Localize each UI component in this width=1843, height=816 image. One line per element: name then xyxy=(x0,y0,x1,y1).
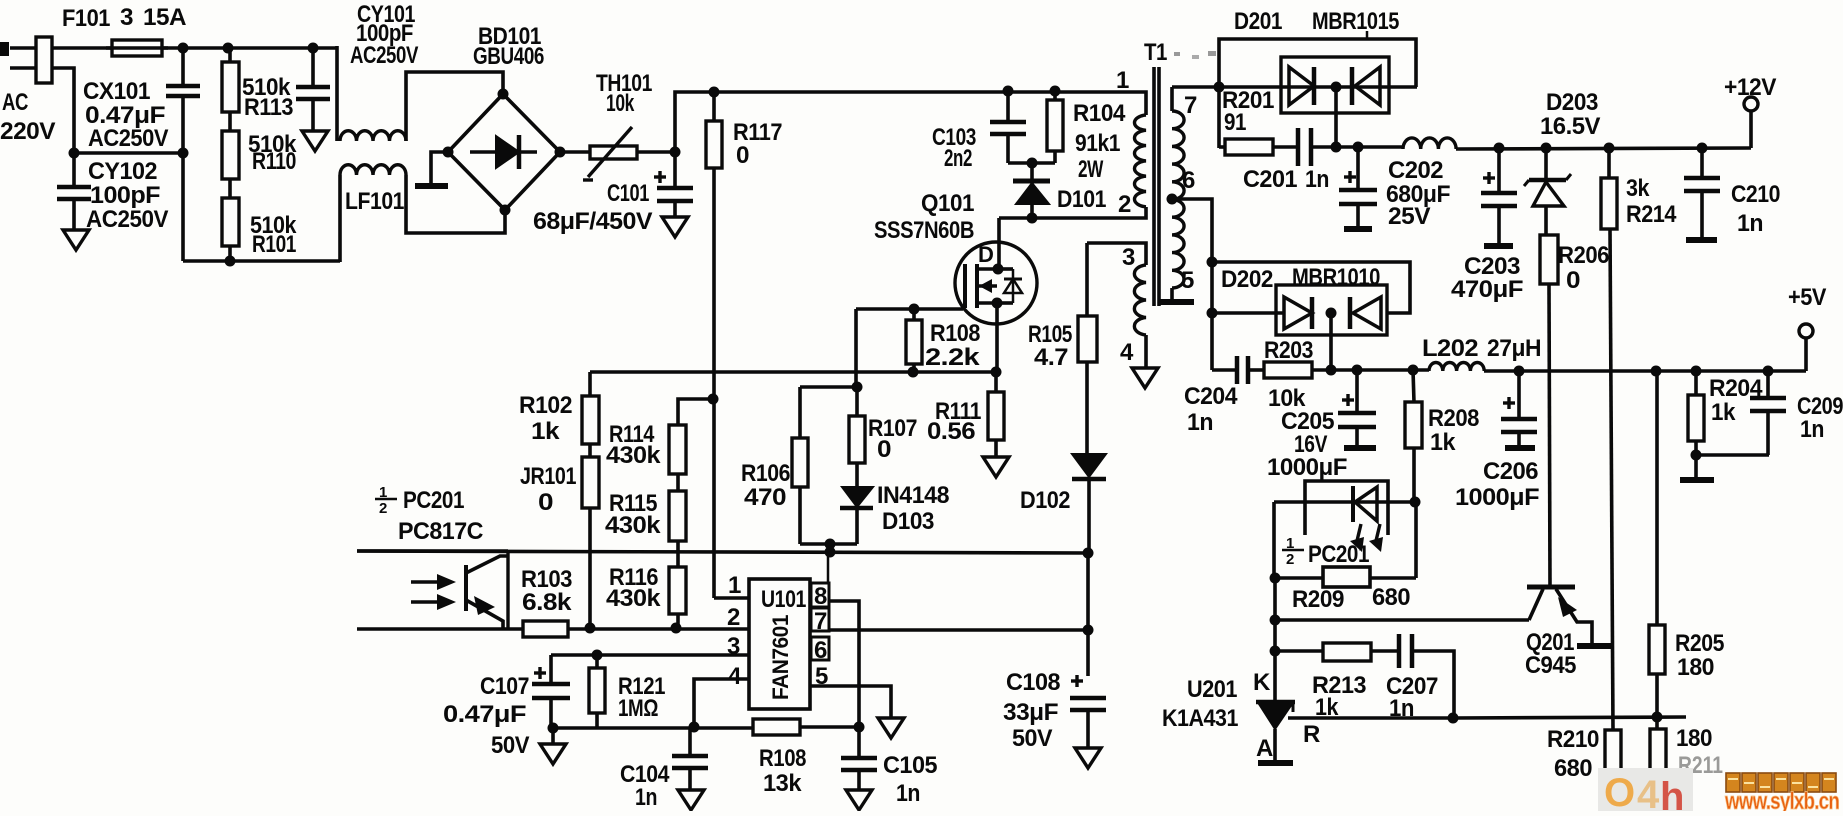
svg-text:1: 1 xyxy=(1116,67,1129,94)
svg-text:1k: 1k xyxy=(1430,429,1456,456)
capacitor CY102 xyxy=(72,153,76,185)
resistor R102 xyxy=(588,372,592,396)
transformer core line right xyxy=(1157,67,1161,306)
svg-text:U201: U201 xyxy=(1187,676,1237,703)
node D201 common cathode xyxy=(1331,82,1342,93)
wire R101 to bottom rail xyxy=(228,246,232,261)
svg-text:MBR1015: MBR1015 xyxy=(1312,8,1399,35)
svg-text:AC250V: AC250V xyxy=(86,206,168,233)
scan smudge near T1 xyxy=(1174,52,1180,56)
svg-text:C206: C206 xyxy=(1483,458,1538,485)
capacitor CX101 xyxy=(181,48,185,84)
node clamp D101 xyxy=(1027,158,1038,169)
wire live rail drop to LF101 xyxy=(335,46,339,141)
node D202 common cathode xyxy=(1326,308,1337,319)
wire L202 to +5V rail xyxy=(1484,369,1806,373)
svg-text:430k: 430k xyxy=(606,442,661,469)
wire R114 top link xyxy=(678,399,713,425)
ground C206 bar xyxy=(1505,445,1535,451)
wire plug prong live xyxy=(10,46,36,50)
resistor R213 xyxy=(1323,643,1371,661)
node secondary center tap pin6 xyxy=(1167,194,1178,205)
svg-text:T1: T1 xyxy=(1144,39,1167,66)
svg-text:33μF: 33μF xyxy=(1003,699,1058,726)
resistor JR101 xyxy=(582,457,599,508)
svg-text:4: 4 xyxy=(1120,339,1134,366)
svg-text:25V: 25V xyxy=(1388,203,1431,230)
node LED R208 junction xyxy=(1410,497,1421,508)
resistor R214 xyxy=(1607,148,1611,178)
svg-text:D: D xyxy=(978,242,993,267)
node gate R108 xyxy=(909,304,920,315)
diode D102 xyxy=(1072,454,1106,477)
resistor R206 xyxy=(1540,235,1558,284)
svg-text:2W: 2W xyxy=(1078,156,1104,183)
ground R211 bar xyxy=(1640,799,1676,805)
node snubber cathode junction xyxy=(1331,142,1342,153)
svg-text:R108: R108 xyxy=(759,745,806,772)
ground C101 xyxy=(662,217,688,237)
svg-text:R: R xyxy=(1303,721,1320,748)
svg-text:2: 2 xyxy=(727,604,740,631)
ground aux winding xyxy=(1132,368,1158,388)
svg-text:K: K xyxy=(1253,669,1271,696)
diode pack D201 inner box xyxy=(1281,57,1389,113)
optocoupler PC817C collector diagonal xyxy=(466,556,507,573)
transistor Q101 channel bar xyxy=(975,264,979,308)
node rail C203 xyxy=(1494,143,1505,154)
svg-text:1: 1 xyxy=(1286,535,1294,552)
diode D201 right half xyxy=(1355,67,1380,105)
svg-text:680: 680 xyxy=(1554,755,1592,782)
diode D202 right half xyxy=(1353,297,1381,329)
svg-text:R113: R113 xyxy=(244,94,293,121)
node timing node C105 xyxy=(854,722,865,733)
scan artifact top-left edge xyxy=(0,42,9,56)
node R213 junction xyxy=(1270,646,1281,657)
capacitor C107 xyxy=(549,655,553,682)
node R116 bottom xyxy=(671,623,682,634)
svg-text:1MΩ: 1MΩ xyxy=(618,695,658,722)
wire R213 to C207 xyxy=(1371,649,1399,653)
svg-text:0.56: 0.56 xyxy=(927,418,975,445)
wire plug prong neutral xyxy=(10,66,36,70)
svg-text:1000μF: 1000μF xyxy=(1267,454,1347,481)
wire timing rail xyxy=(553,726,753,730)
resistor R107 xyxy=(855,387,859,416)
svg-text:D103: D103 xyxy=(882,508,934,535)
resistor R104 xyxy=(1053,91,1057,100)
svg-text:R214: R214 xyxy=(1626,201,1677,228)
node bridge left vertex xyxy=(443,147,454,158)
transistor Q101 body diode xyxy=(998,267,1013,271)
diode D103 xyxy=(842,487,873,507)
svg-text:R110: R110 xyxy=(252,148,296,175)
svg-text:PC817C: PC817C xyxy=(398,518,483,545)
diode pack D202 outer loop xyxy=(1212,262,1410,313)
transformer core line left xyxy=(1152,67,1156,306)
svg-text:D203: D203 xyxy=(1546,89,1598,116)
transistor Q101 source stub xyxy=(977,301,997,305)
resistor R105 xyxy=(1085,243,1089,316)
svg-text:h: h xyxy=(1660,775,1684,811)
wire vcc feedback rail xyxy=(357,551,1089,553)
wire LF101 bottom out xyxy=(406,175,505,233)
wire bridge to TH101 xyxy=(560,150,590,154)
ic U101 pin7 box xyxy=(811,608,829,631)
node gate network tap xyxy=(825,539,836,550)
svg-text:1: 1 xyxy=(379,484,387,501)
node rail C202 xyxy=(1353,142,1364,153)
capacitor CY101 xyxy=(311,48,315,85)
shunt regulator U201 K1A431 xyxy=(1256,700,1295,705)
wire plug neutral to CX bottom xyxy=(52,68,74,153)
inductor LF101 bottom winding xyxy=(340,165,406,175)
wire pin7 to D201 xyxy=(1172,85,1417,89)
resistor R211 xyxy=(1655,717,1659,729)
wire R214 down xyxy=(1610,229,1613,730)
wire ref rail right xyxy=(1453,717,1686,718)
resistor R117 xyxy=(712,92,716,121)
diode pack D202 inner box xyxy=(1276,285,1387,335)
resistor R121 xyxy=(595,655,599,668)
wire TH101 to C101 node xyxy=(637,150,675,154)
optocoupler PC201 LED box xyxy=(1305,481,1388,535)
svg-text:15A: 15A xyxy=(143,4,186,31)
wire U101 pin7 rail xyxy=(829,628,1088,632)
wire LF101 bottom left xyxy=(338,175,342,262)
terminal +12V xyxy=(1744,97,1758,111)
svg-text:C202: C202 xyxy=(1388,157,1443,184)
node HV rail C103 xyxy=(1003,86,1014,97)
watermark chinese text blocks xyxy=(1726,773,1740,792)
node D202 anode tie xyxy=(1207,308,1218,319)
transistor Q201 base diagonal xyxy=(1529,589,1543,620)
wire C201 to rail xyxy=(1311,145,1403,149)
ground U201 bar xyxy=(1258,760,1293,766)
capacitor C105 xyxy=(857,727,861,756)
wire D202 cathode down xyxy=(1329,313,1333,370)
svg-text:CY102: CY102 xyxy=(88,158,157,185)
svg-text:A: A xyxy=(1256,735,1273,762)
resistor R209 xyxy=(1323,567,1370,587)
svg-text:F101: F101 xyxy=(62,5,110,32)
zener D203 xyxy=(1544,148,1548,179)
node 5V rail C206 xyxy=(1514,366,1525,377)
svg-text:AC250V: AC250V xyxy=(350,42,418,69)
ground bridge negative bar xyxy=(415,183,448,189)
wire D202 anode wire xyxy=(1212,311,1284,315)
resistor R205 xyxy=(1655,371,1659,625)
ground CY102 xyxy=(63,230,89,250)
svg-text:220V: 220V xyxy=(0,118,55,145)
svg-text:0: 0 xyxy=(877,436,891,463)
svg-text:3: 3 xyxy=(1122,244,1135,271)
resistor R108 2.2k xyxy=(912,309,916,320)
svg-text:U101: U101 xyxy=(761,586,806,613)
wire LF101 top out xyxy=(406,72,503,141)
AC plug P101 xyxy=(36,37,52,83)
wire vcc drop to pin7 rail xyxy=(1086,553,1090,630)
capacitor C104 xyxy=(688,727,692,754)
capacitor C206 electrolytic xyxy=(1517,371,1521,417)
node neutral junction xyxy=(69,148,80,159)
wire neutral bottom rail xyxy=(181,151,185,261)
optocoupler PC817C emitter diagonal with arrow xyxy=(466,600,503,629)
svg-text:4: 4 xyxy=(1637,773,1660,811)
wire R116 down xyxy=(676,614,680,628)
svg-text:6.8k: 6.8k xyxy=(522,589,572,616)
svg-text:430k: 430k xyxy=(606,585,661,612)
ground C205 bar xyxy=(1344,445,1376,451)
wire fuse to node xyxy=(162,46,337,50)
wire R201 to C201 xyxy=(1273,145,1298,149)
svg-text:1n: 1n xyxy=(1800,416,1824,443)
diode D202 left half xyxy=(1284,297,1312,329)
capacitor C204 xyxy=(1235,356,1240,384)
ic U101 pin8 box xyxy=(811,583,829,607)
node C101 junction xyxy=(670,147,681,158)
node pin7 C108 xyxy=(1083,625,1094,636)
wire U101 pin3 xyxy=(551,653,749,657)
svg-text:AC: AC xyxy=(2,89,28,116)
resistor R201 xyxy=(1219,145,1225,149)
node ref R205 junction xyxy=(1652,712,1663,723)
capacitor C101 electrolytic xyxy=(673,152,677,186)
svg-text:8: 8 xyxy=(814,583,827,610)
svg-text:6: 6 xyxy=(1182,167,1195,194)
svg-text:1n: 1n xyxy=(1305,166,1329,193)
wire U201 anode xyxy=(1273,729,1277,761)
wire drain node xyxy=(999,207,1146,218)
wire D102 to vcc wire xyxy=(1087,479,1091,552)
node U101 pin4 node xyxy=(689,722,700,733)
svg-text:+5V: +5V xyxy=(1788,284,1826,311)
svg-text:JR101: JR101 xyxy=(520,463,576,490)
resistor R203 xyxy=(1264,362,1312,378)
svg-text:C210: C210 xyxy=(1731,181,1780,208)
svg-text:100pF: 100pF xyxy=(90,182,160,209)
label half PC201 primary xyxy=(375,498,397,501)
wire tap to vcc wire xyxy=(828,544,832,552)
wire CY101 to ground xyxy=(311,101,315,131)
svg-text:0: 0 xyxy=(736,142,749,169)
ic U101 FAN7601 body xyxy=(749,579,810,709)
transistor Q101 gate bar xyxy=(963,264,967,308)
wire HV rail xyxy=(675,92,1146,152)
wire source sense rail xyxy=(590,370,996,374)
svg-text:FAN7601: FAN7601 xyxy=(768,615,793,700)
resistor R114 xyxy=(669,425,686,474)
resistor R113 xyxy=(228,48,232,62)
wire snubber C204 xyxy=(1212,368,1237,372)
wire LED anode rail xyxy=(1274,500,1416,504)
node 5V rail C209 xyxy=(1763,366,1774,377)
node vcc wire D102 xyxy=(1083,548,1094,559)
svg-text:50V: 50V xyxy=(491,732,529,759)
terminal +5V xyxy=(1799,324,1813,338)
wire R209 rail xyxy=(1275,576,1323,580)
inductor L201 xyxy=(1403,138,1456,149)
wire L201 to rail xyxy=(1456,148,1751,149)
fuse F101 xyxy=(112,40,162,56)
svg-text:MBR1010: MBR1010 xyxy=(1292,264,1380,291)
node gate network top xyxy=(852,382,863,393)
watermark grey patch xyxy=(1598,768,1693,811)
wire D201 cathode down xyxy=(1334,87,1338,147)
svg-text:L202: L202 xyxy=(1422,335,1478,362)
transistor Q201 base bar xyxy=(1527,585,1575,590)
resistor R210 xyxy=(1605,730,1621,777)
svg-text:91k1: 91k1 xyxy=(1075,130,1120,157)
wire C204 to R203 xyxy=(1248,368,1264,372)
node 5V rail R204 xyxy=(1691,366,1702,377)
svg-text:4.7: 4.7 xyxy=(1034,344,1068,371)
wire gate network bottom xyxy=(800,542,857,546)
wire C207 down xyxy=(1412,651,1454,718)
svg-text:1000μF: 1000μF xyxy=(1455,484,1539,511)
svg-text:2: 2 xyxy=(1286,551,1294,568)
wire gate network top xyxy=(800,385,857,389)
svg-text:D101: D101 xyxy=(1057,186,1106,213)
svg-text:10k: 10k xyxy=(606,90,635,117)
wire pin6 drop xyxy=(1210,262,1214,370)
wire secondary pin7 up xyxy=(1170,87,1174,111)
resistor R110 xyxy=(222,131,239,179)
transistor Q101 body stub with arrow xyxy=(977,284,997,288)
svg-text:C945: C945 xyxy=(1525,652,1576,679)
svg-text:2: 2 xyxy=(379,500,387,517)
wire Q201 emitter bar xyxy=(1577,643,1613,649)
wire R213 link xyxy=(1275,649,1323,653)
wire R113 to R110 xyxy=(228,112,232,131)
svg-text:2.2k: 2.2k xyxy=(925,344,980,371)
resistor R116 xyxy=(669,567,686,614)
node ref C207 junction xyxy=(1448,713,1459,724)
ground C107 xyxy=(540,744,566,764)
svg-text:91: 91 xyxy=(1224,109,1246,136)
wire bridge negative stub xyxy=(431,152,448,184)
optocoupler PC817C collector wire xyxy=(357,549,508,553)
node JR101 bottom xyxy=(585,623,596,634)
svg-text:C108: C108 xyxy=(1006,669,1060,696)
bridge internal diode xyxy=(470,150,537,154)
wire pin8 box stub xyxy=(827,552,830,583)
capacitor C205 electrolytic xyxy=(1355,370,1359,411)
node bridge bottom vertex xyxy=(500,205,511,216)
wire gate drive vertical xyxy=(854,309,858,387)
wire U101 pin5 to ground xyxy=(810,686,891,718)
node D202 box top corner xyxy=(1207,257,1218,268)
ground U101 pin5 xyxy=(878,718,904,738)
svg-text:R101: R101 xyxy=(252,231,296,258)
transistor Q201 emitter diagonal xyxy=(1556,589,1592,645)
wire gate xyxy=(856,307,963,311)
wire U201 ref xyxy=(1288,716,1453,720)
svg-text:R104: R104 xyxy=(1073,100,1126,127)
ground C108 xyxy=(1075,748,1101,768)
capacitor C209 xyxy=(1766,371,1770,396)
capacitor C207 xyxy=(1397,634,1402,668)
svg-text:R106: R106 xyxy=(741,460,790,487)
svg-text:C204: C204 xyxy=(1184,383,1238,410)
svg-text:50V: 50V xyxy=(1012,725,1052,752)
node R204 bottom xyxy=(1691,450,1702,461)
wire U101 pin8 to timing node xyxy=(829,601,859,727)
wire U101 pin4 xyxy=(694,679,749,727)
optocoupler PC817C body edge xyxy=(506,551,509,629)
svg-text:1n: 1n xyxy=(896,780,920,807)
optocoupler PC817C base bar xyxy=(464,565,468,611)
svg-text:2: 2 xyxy=(1118,191,1131,218)
optocoupler light arrow 2 xyxy=(411,600,440,603)
node bottom rail R101 xyxy=(225,256,236,267)
resistor R106 xyxy=(798,387,802,438)
ground C104 xyxy=(678,790,704,810)
diode D201 left half xyxy=(1289,67,1314,105)
wire U101 pin1 xyxy=(714,596,749,600)
node R209 left xyxy=(1270,573,1281,584)
node rail D203 xyxy=(1541,143,1552,154)
node HV rail R117 xyxy=(709,87,720,98)
svg-text:27μH: 27μH xyxy=(1487,335,1541,362)
node drain junction D101 xyxy=(1027,213,1038,224)
node Q101 drain xyxy=(993,264,1004,275)
optocoupler PC817C emitter wire xyxy=(357,627,524,631)
node base wire junction xyxy=(1270,615,1281,626)
svg-text:3: 3 xyxy=(120,4,133,31)
svg-text:R107: R107 xyxy=(868,415,917,442)
svg-text:16.5V: 16.5V xyxy=(1540,113,1600,140)
ground C203 bar xyxy=(1484,243,1513,249)
wire JR101 down xyxy=(588,508,592,628)
wire aux pin4 to ground xyxy=(1144,335,1148,368)
transistor Q101 drain stub xyxy=(977,267,998,271)
node rail C210 xyxy=(1697,143,1708,154)
ground C210 bar xyxy=(1686,237,1717,243)
svg-text:7: 7 xyxy=(814,608,827,635)
diode pack D201 outer loop xyxy=(1219,39,1416,148)
wire rail to +12V terminal xyxy=(1749,110,1753,148)
led PC201 emission arrows xyxy=(1356,524,1361,545)
transformer primary winding pin1-2 xyxy=(1134,115,1146,207)
resistor R115 xyxy=(669,491,686,541)
svg-text:1n: 1n xyxy=(1187,409,1213,436)
svg-text:O: O xyxy=(1604,771,1635,811)
svg-text:www.sylxb.cn: www.sylxb.cn xyxy=(1724,788,1839,811)
svg-text:1n: 1n xyxy=(1737,210,1763,237)
led PC201 secondary xyxy=(1351,486,1355,522)
svg-text:R203: R203 xyxy=(1264,337,1313,364)
capacitor C103 xyxy=(1006,91,1010,120)
svg-text:1k: 1k xyxy=(1711,399,1736,426)
wire CY102 to ground xyxy=(72,201,76,230)
svg-text:470: 470 xyxy=(744,484,786,511)
svg-text:680: 680 xyxy=(1372,584,1410,611)
wire R203 to node xyxy=(1312,368,1429,372)
svg-text:R102: R102 xyxy=(519,392,572,419)
wire R206 to Q201 collector xyxy=(1549,284,1550,587)
svg-text:R206: R206 xyxy=(1558,242,1609,269)
wire clamp node xyxy=(1008,161,1055,165)
svg-text:R210: R210 xyxy=(1547,726,1599,753)
svg-text:0: 0 xyxy=(538,489,553,516)
svg-text:6: 6 xyxy=(814,637,827,664)
node live rail junction R113 xyxy=(223,43,234,54)
svg-text:SSS7N60B: SSS7N60B xyxy=(874,217,974,244)
capacitor C202 electrolytic xyxy=(1356,147,1360,188)
ground R204 bar xyxy=(1694,455,1698,478)
